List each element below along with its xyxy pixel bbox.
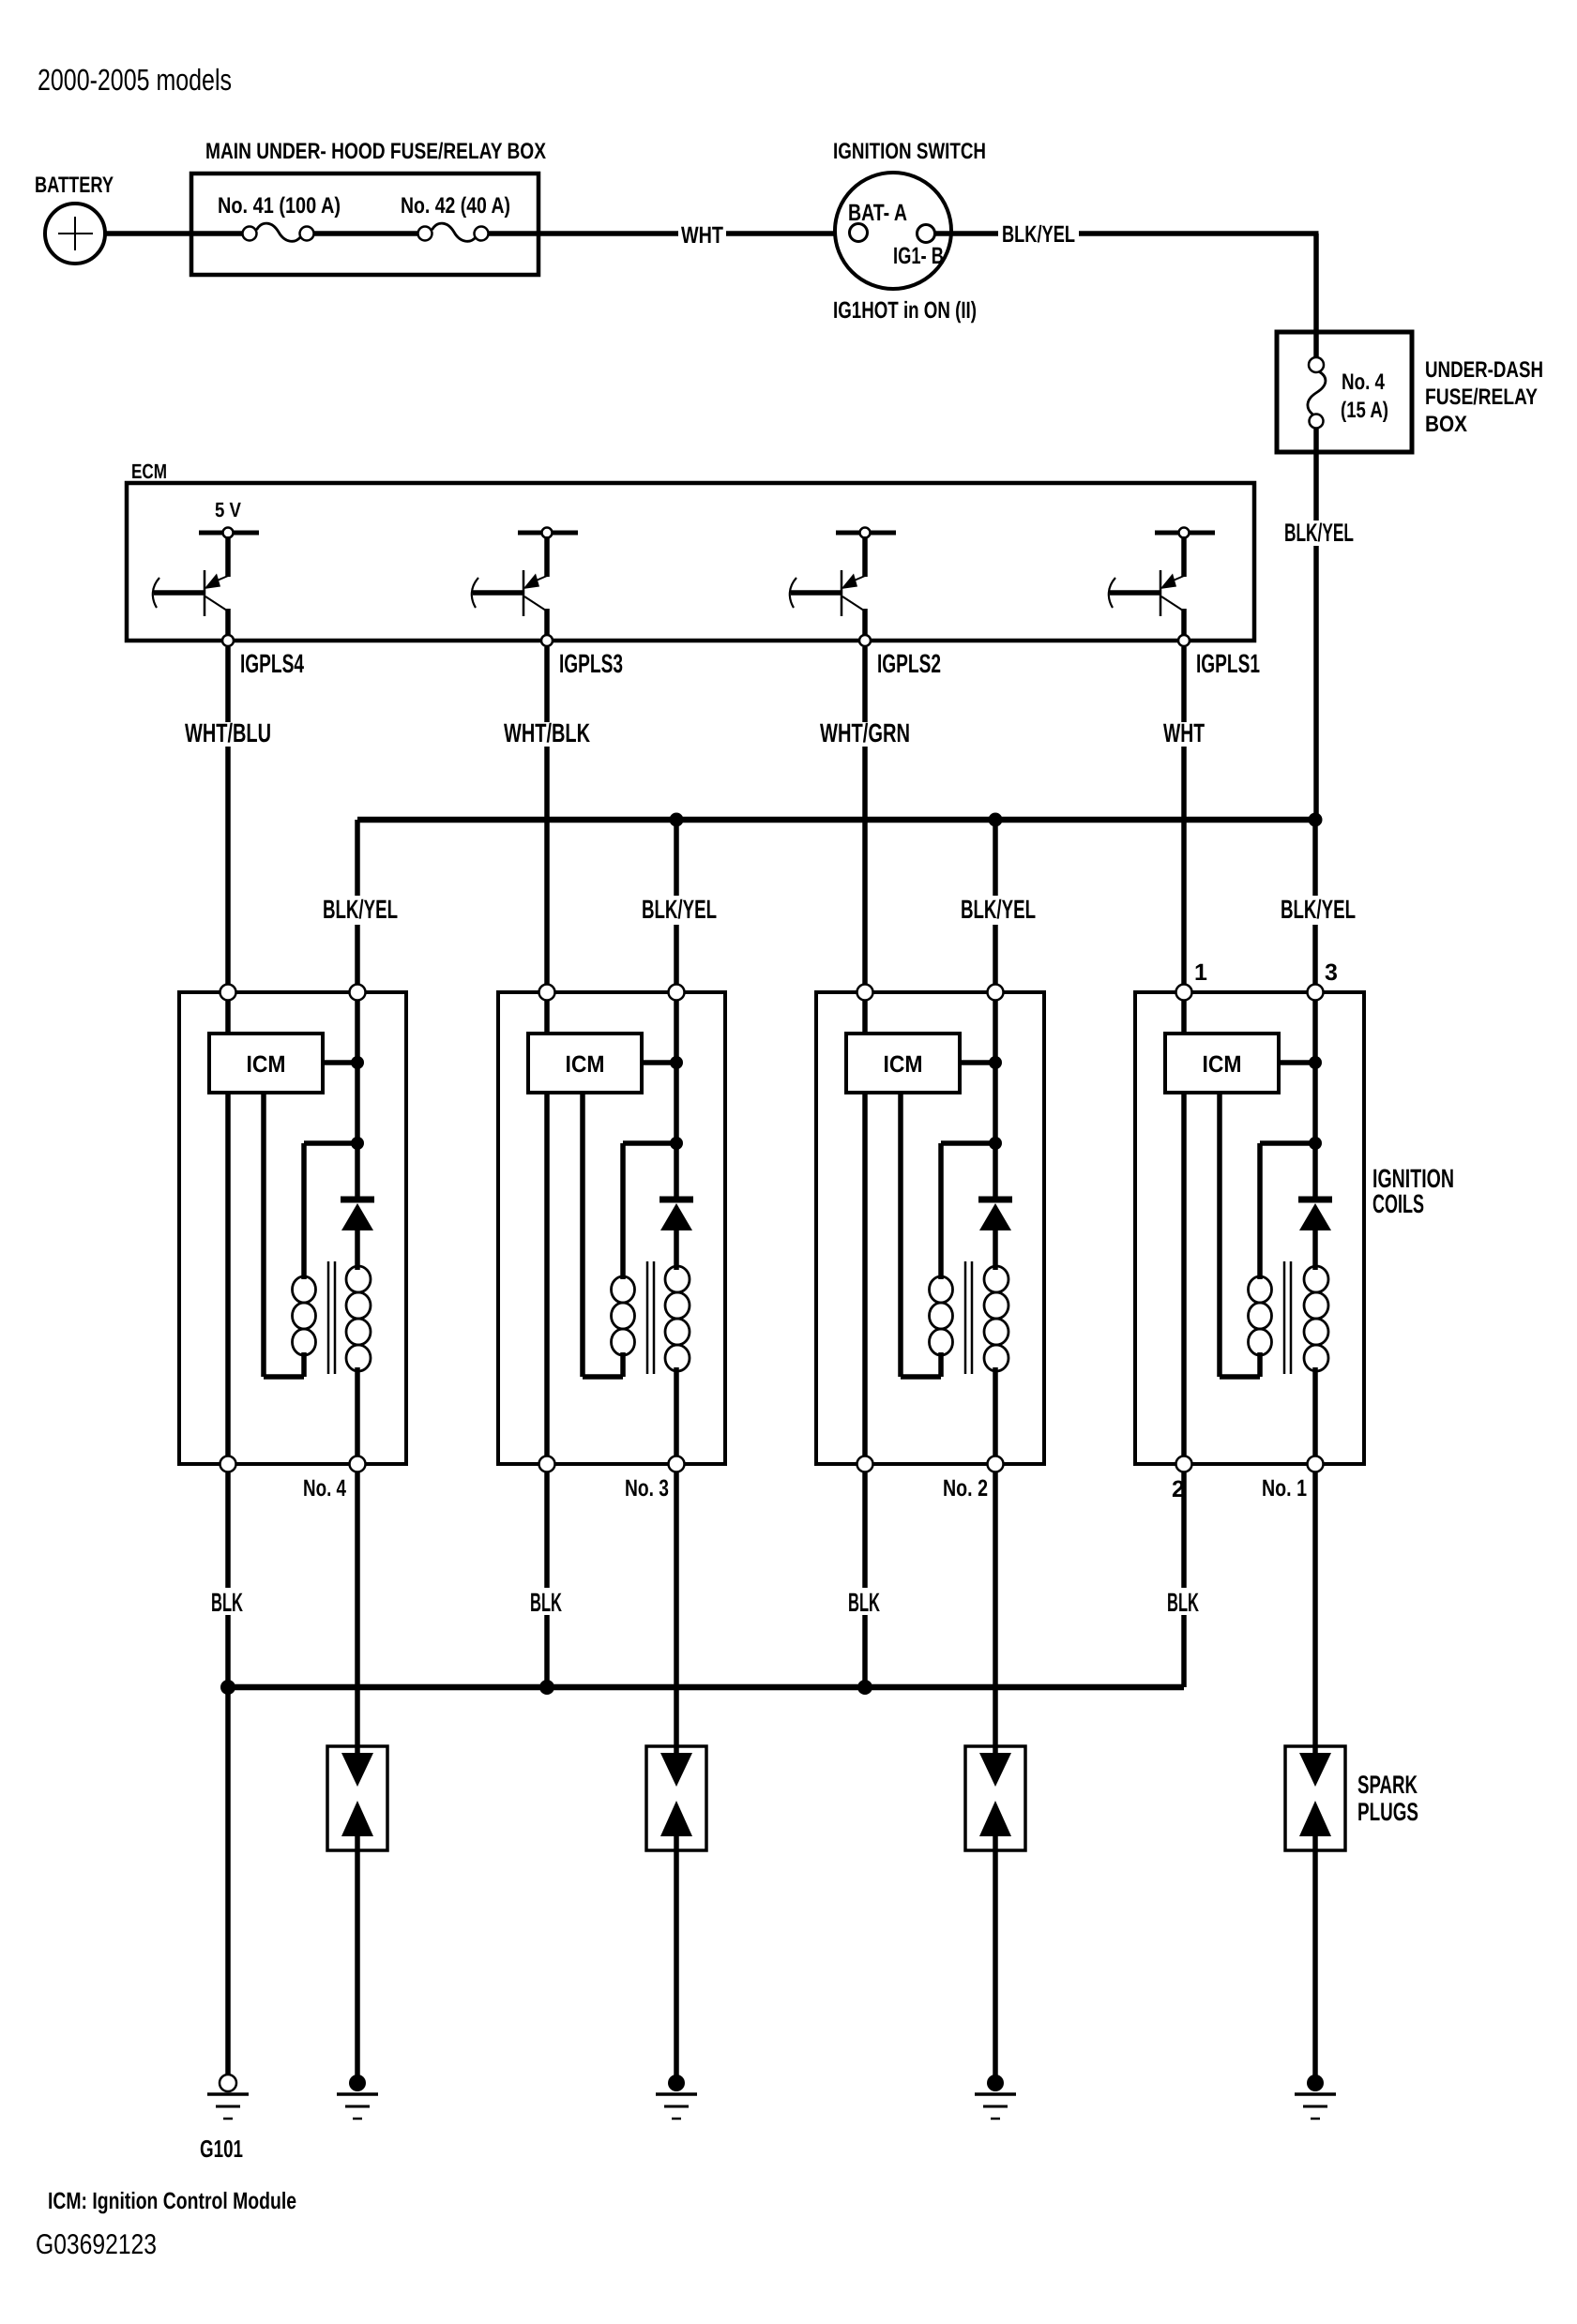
svg-text:IGPLS2: IGPLS2 [877, 649, 941, 678]
svg-text:BLK: BLK [211, 1588, 243, 1617]
svg-text:No. 42 (40 A): No. 42 (40 A) [401, 193, 510, 219]
svg-text:MAIN UNDER- HOOD FUSE/RELAY BO: MAIN UNDER- HOOD FUSE/RELAY BOX [205, 139, 546, 164]
svg-text:No. 4: No. 4 [1342, 370, 1386, 395]
svg-text:ICM: ICM [884, 1051, 923, 1078]
svg-text:BLK: BLK [530, 1588, 562, 1617]
svg-text:BLK/YEL: BLK/YEL [961, 895, 1036, 924]
svg-text:PLUGS: PLUGS [1357, 1798, 1418, 1826]
svg-text:SPARK: SPARK [1357, 1771, 1418, 1799]
svg-text:ICM: ICM [247, 1051, 286, 1078]
svg-text:No. 3: No. 3 [625, 1475, 669, 1502]
svg-text:IGNITION SWITCH: IGNITION SWITCH [833, 139, 986, 164]
svg-text:BLK/YEL: BLK/YEL [642, 895, 717, 924]
svg-text:IG1HOT in ON (II): IG1HOT in ON (II) [833, 297, 977, 324]
svg-text:BLK/YEL: BLK/YEL [1002, 221, 1075, 248]
svg-text:2000-2005 models: 2000-2005 models [38, 63, 232, 97]
svg-text:G101: G101 [200, 2135, 243, 2163]
svg-text:3: 3 [1325, 959, 1338, 986]
svg-text:IGPLS4: IGPLS4 [240, 649, 304, 678]
svg-text:5 V: 5 V [215, 498, 241, 521]
svg-text:WHT/BLK: WHT/BLK [504, 718, 590, 747]
svg-text:BLK: BLK [1167, 1588, 1199, 1617]
svg-text:No. 2: No. 2 [943, 1475, 988, 1502]
svg-text:No. 41 (100 A): No. 41 (100 A) [218, 193, 341, 219]
svg-text:IG1- B: IG1- B [893, 243, 944, 269]
svg-text:ICM: Ignition Control Module: ICM: Ignition Control Module [48, 2188, 296, 2214]
svg-text:COILS: COILS [1372, 1189, 1424, 1218]
svg-text:BATTERY: BATTERY [35, 173, 114, 198]
svg-text:WHT/BLU: WHT/BLU [185, 718, 271, 747]
svg-text:BLK/YEL: BLK/YEL [1281, 895, 1356, 924]
svg-text:BOX: BOX [1425, 412, 1467, 437]
svg-text:ICM: ICM [1203, 1051, 1242, 1078]
svg-text:G03692123: G03692123 [36, 2229, 157, 2260]
svg-text:UNDER-DASH: UNDER-DASH [1425, 357, 1543, 383]
svg-text:WHT/GRN: WHT/GRN [820, 718, 910, 747]
svg-text:BAT- A: BAT- A [848, 200, 907, 226]
svg-text:IGPLS1: IGPLS1 [1196, 649, 1260, 678]
svg-text:ECM: ECM [131, 460, 167, 483]
svg-text:BLK: BLK [848, 1588, 880, 1617]
svg-text:WHT: WHT [681, 222, 723, 249]
svg-text:FUSE/RELAY: FUSE/RELAY [1425, 385, 1538, 410]
svg-text:No. 1: No. 1 [1262, 1475, 1307, 1502]
svg-text:ICM: ICM [566, 1051, 605, 1078]
svg-text:(15 A): (15 A) [1341, 398, 1388, 423]
svg-text:WHT: WHT [1163, 718, 1205, 747]
svg-text:IGPLS3: IGPLS3 [559, 649, 623, 678]
svg-text:BLK/YEL: BLK/YEL [1284, 519, 1354, 547]
svg-text:No. 4: No. 4 [303, 1475, 346, 1502]
svg-text:1: 1 [1194, 959, 1207, 986]
svg-text:BLK/YEL: BLK/YEL [323, 895, 398, 924]
